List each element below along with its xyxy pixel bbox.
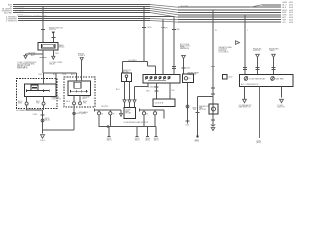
svg-text:(BLK): (BLK) xyxy=(135,140,140,142)
svg-text:G/Y: G/Y xyxy=(282,22,286,24)
svg-text:RED: RED xyxy=(18,103,23,105)
svg-text:FUSE 4: FUSE 4 xyxy=(78,55,86,57)
svg-text:C551: C551 xyxy=(185,125,189,127)
svg-text:RELAY: RELAY xyxy=(49,62,56,65)
svg-text:UNIT: UNIT xyxy=(82,98,87,100)
svg-text:BLK: BLK xyxy=(282,7,287,9)
svg-text:BLU: BLU xyxy=(146,91,150,93)
svg-text:A/C COMPRESSOR: A/C COMPRESSOR xyxy=(241,83,259,86)
svg-text:BLU/BLK: BLU/BLK xyxy=(147,87,156,89)
svg-text:15: 15 xyxy=(188,78,190,80)
svg-text:BLK/PPL: BLK/PPL xyxy=(101,106,108,108)
svg-text:(BLK): (BLK) xyxy=(195,141,200,143)
svg-text:TEL: TEL xyxy=(171,90,174,92)
svg-text:(BLK): (BLK) xyxy=(154,140,159,142)
svg-text:RAD FAN: RAD FAN xyxy=(275,77,284,80)
svg-text:MOTOR: MOTOR xyxy=(199,109,207,111)
svg-text:W: W xyxy=(215,30,217,32)
svg-text:C436: C436 xyxy=(175,29,179,31)
svg-text:(BLK): (BLK) xyxy=(45,120,50,122)
svg-text:GRN/BLK GRN/BLK GRN: GRN/BLK GRN/BLK GRN xyxy=(23,16,48,18)
svg-text:C953: C953 xyxy=(32,114,37,116)
svg-text:(BLK): (BLK) xyxy=(107,140,112,142)
svg-text:FAN SWITCH: FAN SWITCH xyxy=(239,106,251,109)
svg-text:BLU/RD: BLU/RD xyxy=(4,12,12,14)
svg-text:G402 (BLK): G402 (BLK) xyxy=(76,113,87,115)
svg-text:BLK/YEL: BLK/YEL xyxy=(181,6,189,8)
svg-text:C402: C402 xyxy=(228,77,233,79)
svg-text:(BLK): (BLK) xyxy=(145,140,150,142)
svg-text:BLU: BLU xyxy=(116,89,120,91)
svg-text:BLU: BLU xyxy=(282,5,287,7)
svg-text:(BLK): (BLK) xyxy=(256,142,261,144)
svg-text:RELAY: RELAY xyxy=(125,112,132,115)
svg-text:BLU: BLU xyxy=(66,101,70,103)
svg-text:CONDENSER FAN MOTOR: CONDENSER FAN MOTOR xyxy=(123,121,149,124)
svg-text:BLU/WHT: BLU/WHT xyxy=(15,8,25,10)
svg-text:VIA FUSE 15: VIA FUSE 15 xyxy=(17,67,28,70)
svg-text:C420: C420 xyxy=(55,53,59,55)
svg-text:TIMER: TIMER xyxy=(269,50,275,52)
svg-text:GRN/YEL: GRN/YEL xyxy=(8,20,18,22)
svg-text:DIODE A: DIODE A xyxy=(155,102,164,105)
svg-text:C553: C553 xyxy=(62,74,66,76)
svg-text:SWITCH: SWITCH xyxy=(49,29,57,31)
svg-text:COND FAN RELAY: COND FAN RELAY xyxy=(249,77,266,80)
svg-text:BLU/BLK: BLU/BLK xyxy=(129,60,138,62)
svg-text:C509: C509 xyxy=(186,68,190,70)
svg-text:GRN: GRN xyxy=(282,2,287,4)
svg-text:SWITCH: SWITCH xyxy=(277,107,285,109)
svg-text:CONTROL: CONTROL xyxy=(51,99,62,101)
svg-text:RELAY: RELAY xyxy=(59,45,66,48)
svg-text:HARNESS): HARNESS) xyxy=(180,47,190,50)
svg-text:(COOLANT): (COOLANT) xyxy=(219,50,229,53)
svg-text:C552: C552 xyxy=(38,74,42,76)
svg-text:SWITCH: SWITCH xyxy=(253,50,261,52)
